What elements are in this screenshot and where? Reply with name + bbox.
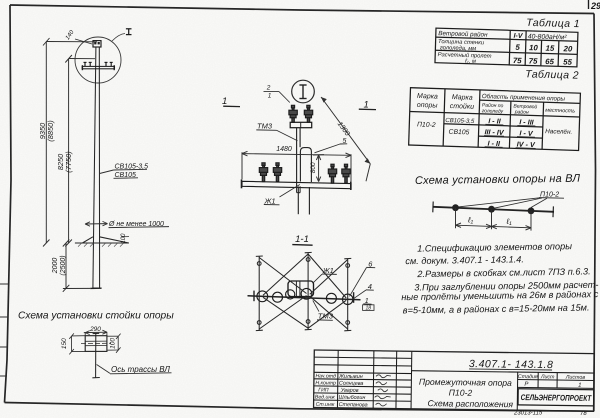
four small insulators on circle crossarm xyxy=(84,62,113,66)
svg-text:15: 15 xyxy=(545,44,555,53)
pole shaft (tapered) xyxy=(93,47,100,288)
svg-text:2: 2 xyxy=(266,85,271,92)
dim 1300 (diagonal) xyxy=(321,97,370,181)
top plate xyxy=(290,122,312,127)
svg-text:2000: 2000 xyxy=(52,258,59,275)
svg-text:ТМ3: ТМ3 xyxy=(257,122,273,131)
vertical axis line (route axis) xyxy=(92,333,99,378)
svg-text:100: 100 xyxy=(110,338,117,349)
svg-text:Стадия: Стадия xyxy=(518,374,538,380)
crossarm center line (plan) xyxy=(248,296,361,300)
svg-text:1: 1 xyxy=(578,383,581,389)
svg-text:Листов: Листов xyxy=(565,375,586,381)
svg-text:Ж1: Ж1 xyxy=(264,196,276,205)
svg-text:ℓ₁, м: ℓ₁, м xyxy=(464,59,476,65)
svg-text:(2500): (2500) xyxy=(60,255,67,275)
svg-text:Н.контр: Н.контр xyxy=(315,380,336,386)
svg-text:Промежуточная опора: Промежуточная опора xyxy=(419,377,512,388)
signature rows: names xyxy=(338,374,368,409)
svg-text:Жилывин: Жилывин xyxy=(338,374,363,380)
svg-text:Ст.инж: Ст.инж xyxy=(316,402,335,408)
svg-text:гололеду: гололеду xyxy=(482,108,504,115)
svg-text:ГИП: ГИП xyxy=(318,387,329,393)
pole top cap box xyxy=(93,41,101,47)
two insulators on pole top plate xyxy=(289,105,313,122)
svg-text:Таблица 1: Таблица 1 xyxy=(526,17,580,30)
svg-text:Марка: Марка xyxy=(417,93,438,101)
organisation box xyxy=(518,389,594,406)
pole below crossarm xyxy=(298,186,309,214)
svg-text:ТМ3: ТМ3 xyxy=(318,312,334,321)
svg-text:Шлыбогин: Шлыбогин xyxy=(339,395,366,401)
svg-text:4: 4 xyxy=(368,282,372,291)
svg-text:СВ105: СВ105 xyxy=(448,129,469,137)
stamp outer border xyxy=(314,350,595,411)
svg-text:гололеда, мм: гололеда, мм xyxy=(440,45,476,52)
X1 clamp box (plan) xyxy=(288,281,314,297)
circled detail label I xyxy=(292,80,315,103)
position flag 2/1 xyxy=(264,85,290,103)
TM3 stand pipe xyxy=(297,128,301,187)
signature rows: roles xyxy=(315,373,336,408)
svg-text:стойки: стойки xyxy=(450,102,475,111)
svg-text:район: район xyxy=(514,108,529,115)
stake rectangle plan xyxy=(85,336,107,352)
svg-text:78: 78 xyxy=(580,411,587,417)
svg-text:(7750): (7750) xyxy=(64,151,73,173)
crossarm inside circle xyxy=(82,66,114,68)
svg-text:75: 75 xyxy=(513,56,523,65)
svg-text:800: 800 xyxy=(310,162,317,173)
left margin fold ticks xyxy=(0,284,8,376)
pole top (rounded, behind crossarm) xyxy=(300,148,311,182)
svg-text:I-V: I-V xyxy=(513,33,523,40)
svg-text:ℓ₁: ℓ₁ xyxy=(506,217,513,226)
ground line with mound xyxy=(75,237,129,243)
pole dots xyxy=(452,204,459,211)
svg-text:23013-115: 23013-115 xyxy=(513,411,543,417)
svg-text:Населён.: Населён. xyxy=(545,128,572,136)
svg-text:(8850): (8850) xyxy=(46,120,55,142)
svg-text:55: 55 xyxy=(563,57,573,66)
crossarm (elevation) xyxy=(242,181,351,188)
detail circle I around pole top xyxy=(75,37,121,83)
svg-text:Ж1: Ж1 xyxy=(322,266,334,275)
table 2 grid xyxy=(409,88,581,151)
svg-text:Степанова: Степанова xyxy=(339,402,368,408)
insulator caps (circles) xyxy=(257,288,353,304)
svg-text:20: 20 xyxy=(562,44,573,53)
pole bottom cap xyxy=(90,287,101,289)
span dimension xyxy=(456,208,532,231)
svg-text:100: 100 xyxy=(121,233,127,244)
svg-text:1: 1 xyxy=(268,93,272,100)
svg-text:П10-2: П10-2 xyxy=(449,387,473,397)
svg-text:ℓ₁: ℓ₁ xyxy=(467,216,474,225)
pipe end below crossarm xyxy=(297,186,301,193)
svg-text:местность: местность xyxy=(545,108,575,115)
dimension 9350 (8850) vertical line xyxy=(43,38,97,247)
ground hatching xyxy=(78,243,124,246)
svg-text:1: 1 xyxy=(222,96,227,107)
svg-text:Уваров: Уваров xyxy=(340,388,359,394)
svg-text:Солнцева: Солнцева xyxy=(339,381,364,387)
diagonal braces xyxy=(259,254,348,329)
OHL line xyxy=(433,207,554,212)
svg-text:СЕЛЬЭНЕРГОПРОЕКТ: СЕЛЬЭНЕРГОПРОЕКТ xyxy=(521,393,592,403)
dimension 2000 (2500) xyxy=(63,240,91,292)
page number 29 xyxy=(589,0,600,11)
svg-text:Таблица 2: Таблица 2 xyxy=(525,68,579,81)
svg-text:65: 65 xyxy=(545,57,555,66)
svg-text:Марка: Марка xyxy=(452,94,473,102)
svg-text:опоры: опоры xyxy=(417,102,439,110)
svg-text:П10-2: П10-2 xyxy=(417,121,436,129)
svg-text:29: 29 xyxy=(590,1,600,11)
crossarm end plates xyxy=(253,291,255,302)
svg-text:СВ105-3,5: СВ105-3,5 xyxy=(445,117,475,125)
svg-text:Вед.инж: Вед.инж xyxy=(315,394,335,400)
svg-text:Лист: Лист xyxy=(540,374,555,380)
svg-text:Схема расположения: Схема расположения xyxy=(427,398,513,409)
signature squiggles xyxy=(375,375,391,406)
svg-text:1480: 1480 xyxy=(276,146,292,153)
svg-text:18: 18 xyxy=(366,305,372,311)
svg-text:75: 75 xyxy=(529,56,539,65)
svg-text:10: 10 xyxy=(529,43,539,52)
svg-text:см. докум. 3.407.1 - 143.1.4.: см. докум. 3.407.1 - 143.1.4. xyxy=(405,254,524,266)
svg-text:40-80даН/м²: 40-80даН/м² xyxy=(528,32,568,41)
svg-text:1-1: 1-1 xyxy=(295,234,309,245)
leader to detail mark I xyxy=(112,34,125,42)
stamp grid lines xyxy=(314,350,595,411)
svg-text:Ветровой район: Ветровой район xyxy=(438,29,488,38)
dim 1480 xyxy=(242,151,351,181)
detail mark I (roman numeral) xyxy=(126,29,132,35)
dim 800 (vertical) xyxy=(313,155,324,182)
svg-text:Нач.отд: Нач.отд xyxy=(315,373,336,379)
horizontal dash axis xyxy=(81,342,111,344)
svg-text:Р: Р xyxy=(524,382,528,388)
svg-text:Схема установки опоры на ВЛ: Схема установки опоры на ВЛ xyxy=(415,173,581,187)
dimension 8250 (7750) vertical line xyxy=(65,55,95,247)
table 1 grid xyxy=(435,28,578,68)
crossarm insulators (4) xyxy=(259,163,350,183)
anchor verticals with T ends xyxy=(256,252,351,330)
svg-text:Схема установки стойки опоры: Схема установки стойки опоры xyxy=(18,311,174,322)
svg-text:150: 150 xyxy=(61,338,68,349)
dim "O not less 1000" xyxy=(85,223,108,225)
